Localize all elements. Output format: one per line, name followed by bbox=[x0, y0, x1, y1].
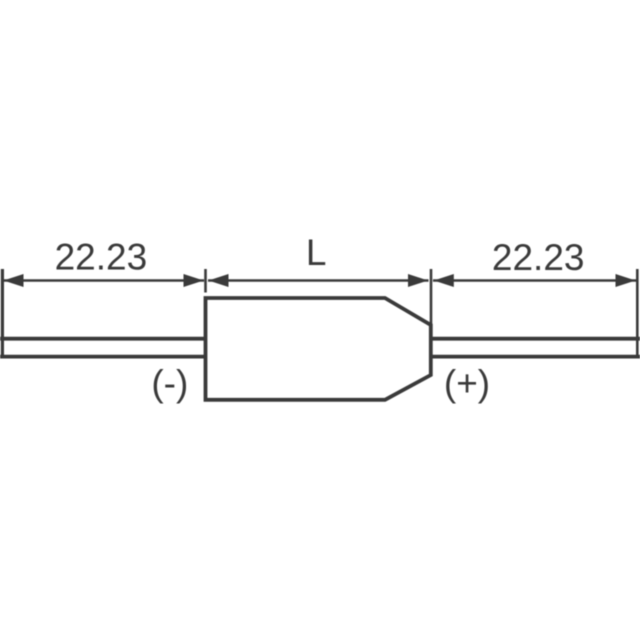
svg-text:22.23: 22.23 bbox=[55, 237, 148, 278]
svg-text:22.23: 22.23 bbox=[492, 237, 585, 278]
svg-text:(-): (-) bbox=[151, 363, 188, 404]
svg-text:L: L bbox=[306, 232, 327, 273]
svg-text:(+): (+) bbox=[444, 363, 490, 404]
